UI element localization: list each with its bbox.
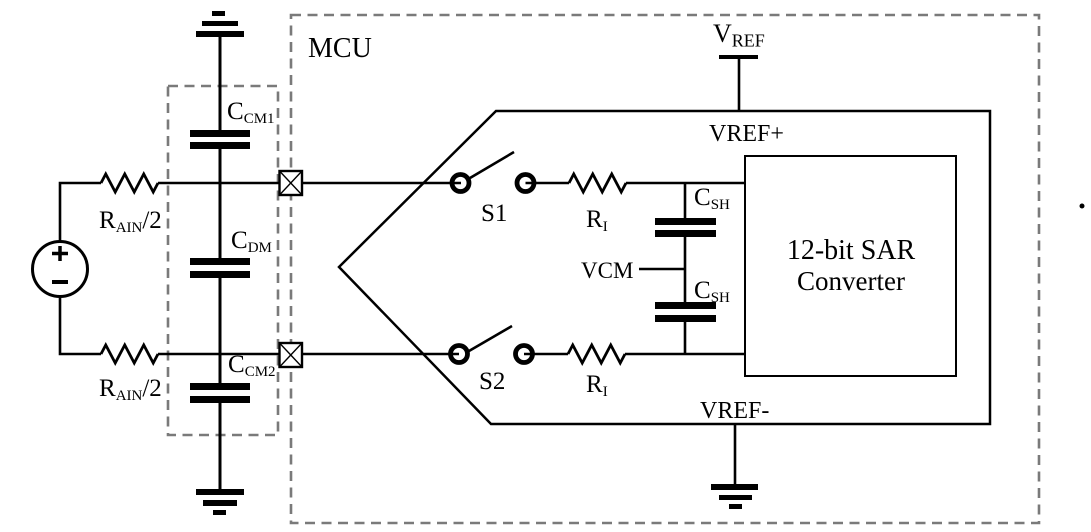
svg-text:S1: S1 bbox=[481, 200, 507, 227]
resistor R_AIN/2 (bottom) bbox=[101, 345, 158, 363]
VREF supply bar bbox=[719, 55, 758, 59]
wire: resistor to MCU pin (top) bbox=[158, 182, 279, 185]
svg-text:CSH: CSH bbox=[694, 277, 730, 306]
MCU pin (bottom crossed box) bbox=[280, 343, 303, 367]
svg-text:RI: RI bbox=[586, 206, 608, 235]
input filter dashed box bbox=[168, 86, 278, 435]
resistor R_AIN/2 (top) bbox=[101, 174, 158, 192]
svg-text:12-bit SAR: 12-bit SAR bbox=[787, 235, 916, 266]
capacitor C_CM2 bbox=[190, 383, 250, 403]
wire: VREF- to ground bbox=[734, 424, 737, 486]
svg-text:VREF: VREF bbox=[713, 19, 765, 51]
sampling capacitor CSH (top) bbox=[655, 218, 716, 237]
wire: C_DM to C_CM2 (crosses bottom rail) bbox=[219, 278, 222, 383]
wire: RI to SAR box (top) bbox=[626, 182, 745, 185]
resistor RI (top) bbox=[569, 174, 626, 192]
resistor RI (bottom) bbox=[568, 345, 625, 363]
wire: top rail to CSH (top) bbox=[684, 183, 687, 218]
wire: pin to switch S2 bbox=[302, 353, 459, 356]
svg-text:CCM2: CCM2 bbox=[228, 351, 276, 380]
V1 minus sign bbox=[52, 280, 68, 284]
voltage source V1 bbox=[33, 242, 88, 297]
svg-text:CDM: CDM bbox=[231, 227, 272, 256]
wire: C_CM1 to C_DM (crosses top rail) bbox=[219, 149, 222, 258]
MCU pin (top crossed box) bbox=[280, 171, 303, 195]
svg-text:VREF-: VREF- bbox=[700, 398, 769, 424]
svg-text:RI: RI bbox=[586, 371, 608, 400]
wire: VREF bar to top edge bbox=[738, 59, 741, 111]
wire: C_CM2 to bottom ground bbox=[219, 403, 222, 490]
MCU boundary dashed box bbox=[291, 15, 1039, 523]
svg-text:MCU: MCU bbox=[308, 33, 372, 64]
ground (bottom left) bbox=[196, 489, 244, 515]
wire: S1 to RI (top) bbox=[526, 182, 570, 185]
svg-text:S2: S2 bbox=[479, 368, 505, 395]
ground (VREF-) bbox=[711, 484, 758, 509]
svg-text:VCM: VCM bbox=[581, 258, 633, 283]
svg-text:Converter: Converter bbox=[797, 266, 905, 296]
stray dot bbox=[1080, 204, 1085, 209]
switch S1 bbox=[452, 152, 534, 192]
svg-text:RAIN/2: RAIN/2 bbox=[99, 207, 162, 236]
V1 plus sign bbox=[52, 246, 68, 261]
wire: resistor to MCU pin (bottom) bbox=[158, 353, 279, 356]
sampling capacitor CSH (bottom) bbox=[655, 302, 716, 322]
wire: source top to top rail bbox=[60, 183, 101, 242]
switch S2 bbox=[451, 326, 533, 363]
capacitor C_CM1 bbox=[190, 130, 250, 149]
svg-text:RAIN/2: RAIN/2 bbox=[99, 375, 162, 404]
wire: top ground to C_CM1 bbox=[219, 37, 222, 130]
wire: S2 to RI (bottom) bbox=[524, 353, 568, 356]
12-bit SAR converter box bbox=[745, 156, 956, 376]
wire: pin to switch S1 bbox=[302, 182, 461, 185]
wire: RI to SAR box (bottom) bbox=[625, 353, 745, 356]
ground (top) bbox=[196, 11, 244, 37]
wire: source bottom to bottom rail bbox=[60, 297, 101, 355]
svg-text:CSH: CSH bbox=[694, 184, 730, 213]
capacitor C_DM bbox=[190, 258, 250, 278]
ADC driver / mux outline bbox=[339, 111, 990, 424]
svg-text:CCM1: CCM1 bbox=[227, 98, 275, 127]
wire: CSH top to VCM node to CSH bottom bbox=[684, 237, 687, 302]
wire: VCM stub bbox=[639, 268, 685, 270]
wire: CSH bottom to bottom rail bbox=[684, 322, 687, 354]
svg-text:VREF+: VREF+ bbox=[709, 121, 784, 147]
